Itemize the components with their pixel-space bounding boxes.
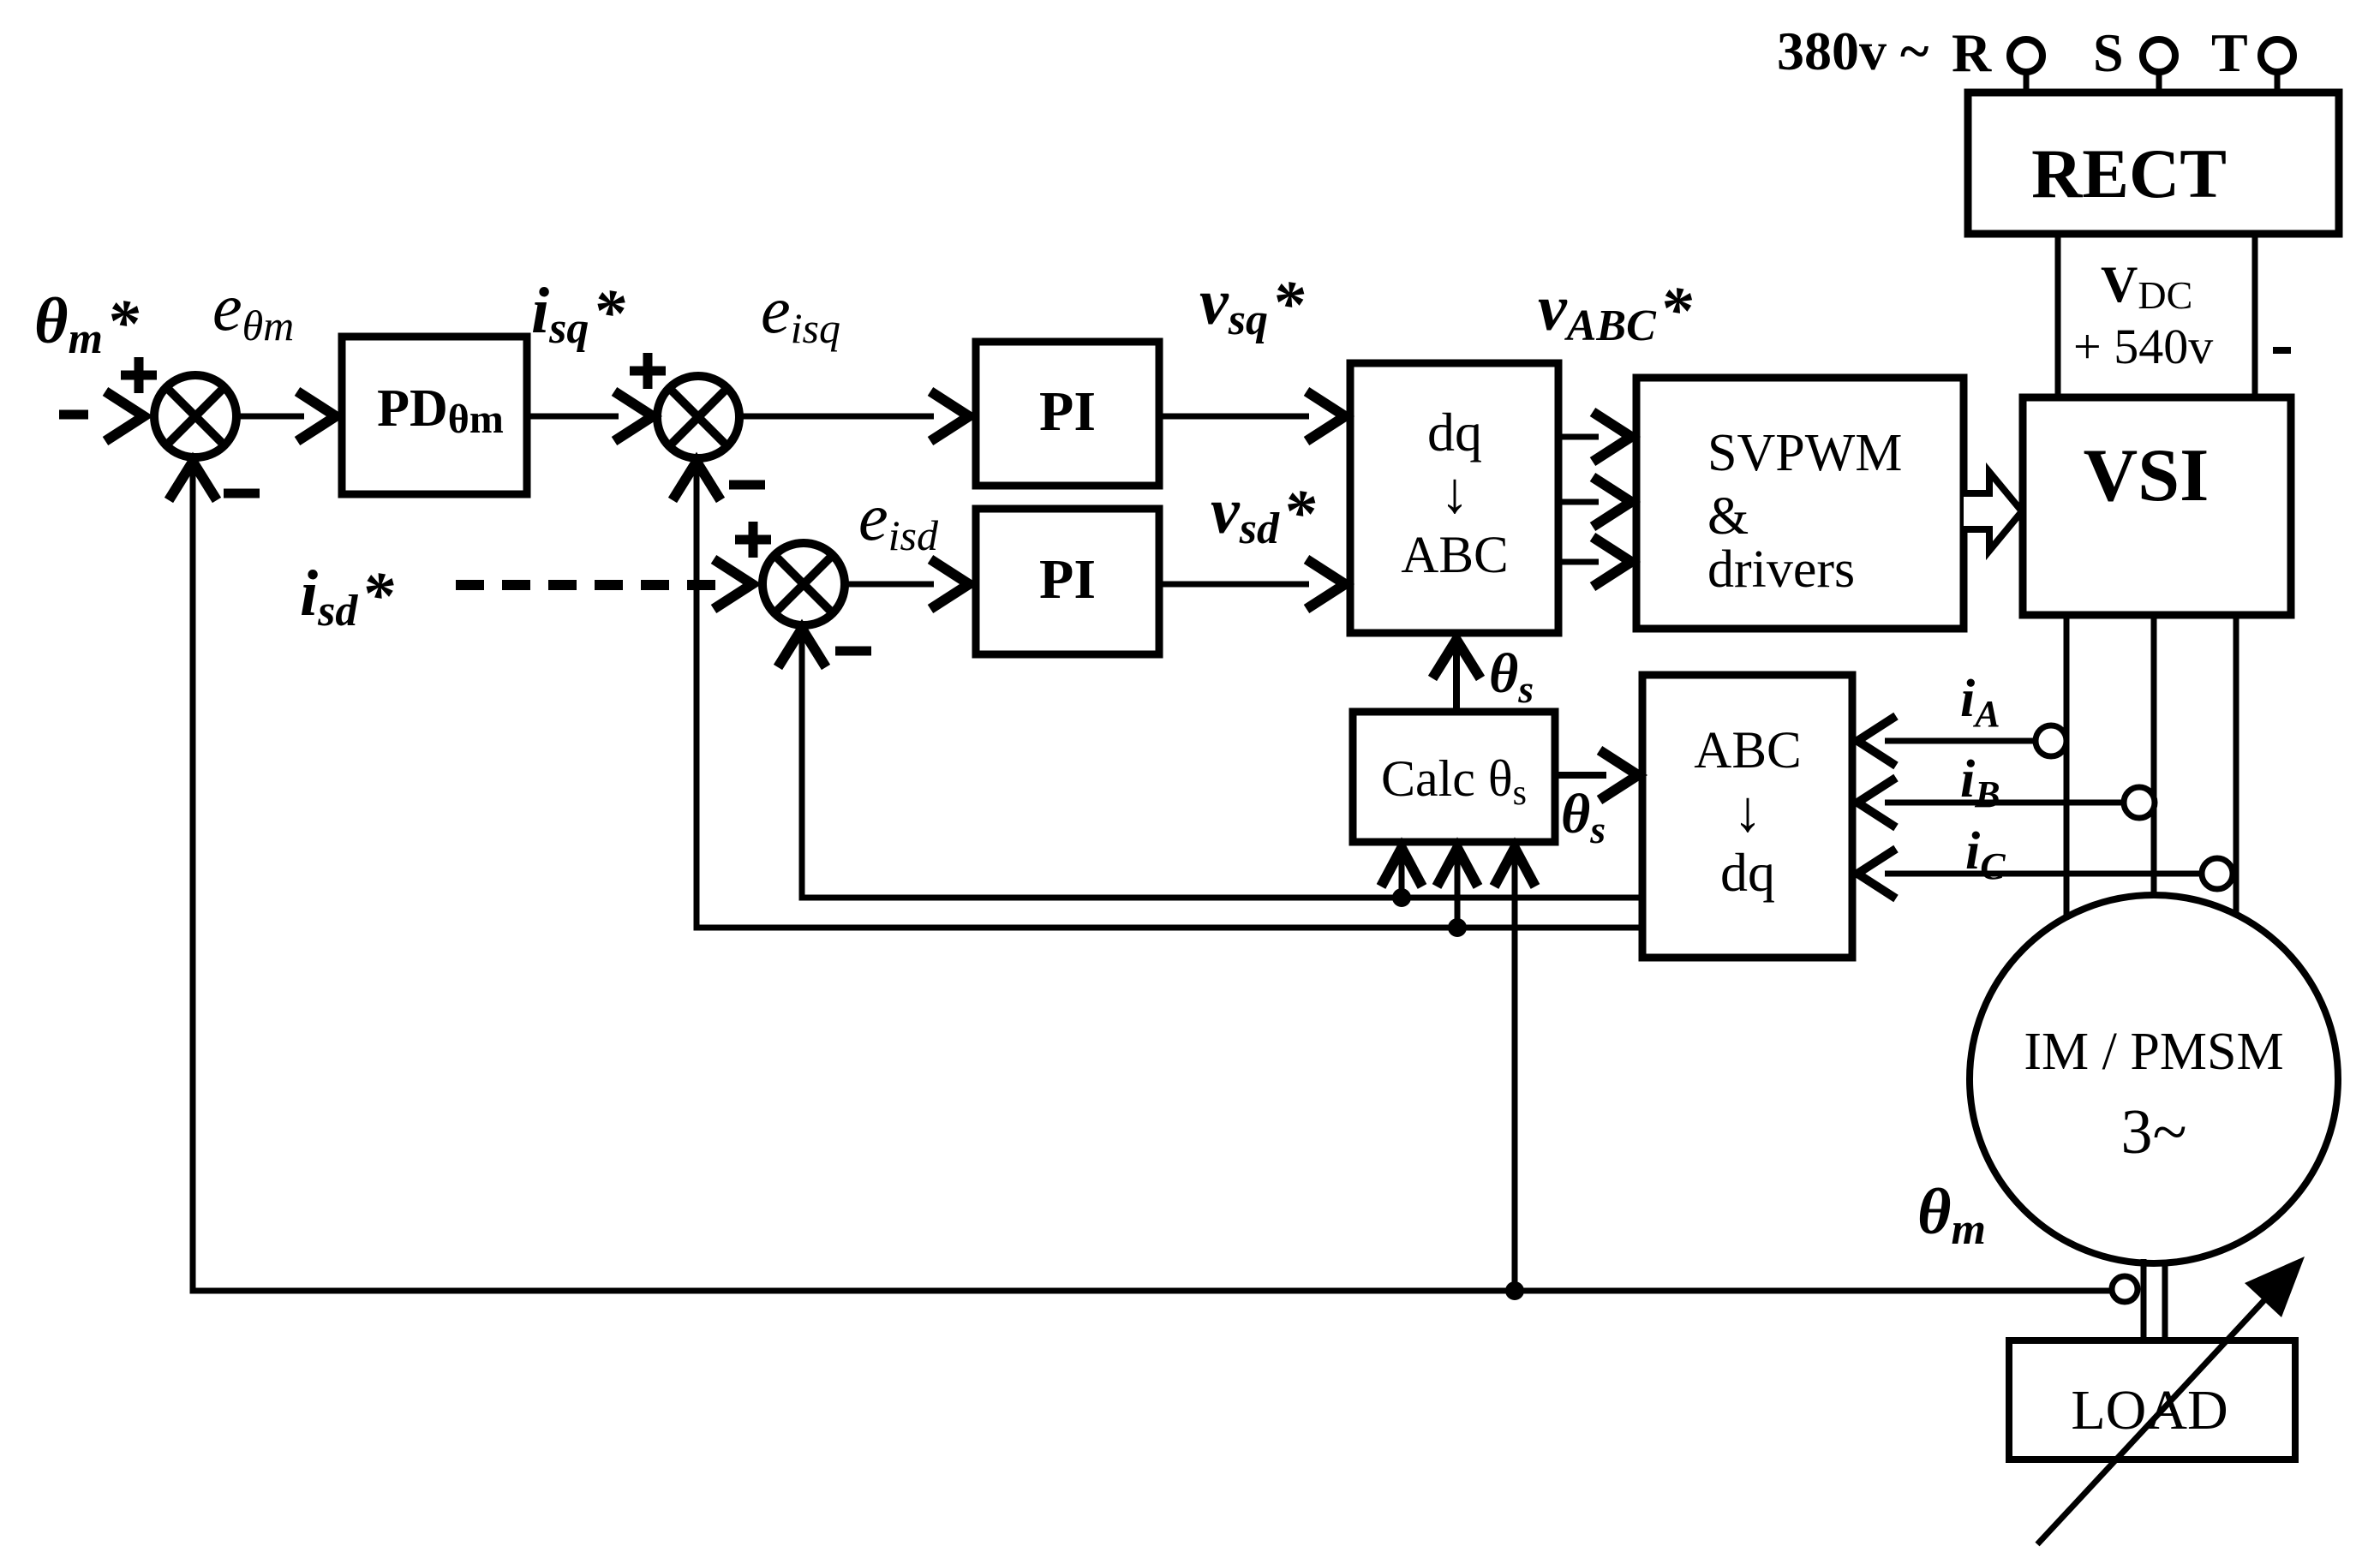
wire PD to S2 [527, 414, 619, 420]
stub S [2156, 72, 2162, 93]
plus sign at S3 [735, 522, 771, 558]
block PI upper [976, 342, 1159, 486]
arrowhead into PI2 [930, 559, 969, 609]
shaft position sensor circle [2112, 1276, 2138, 1302]
svg-text:LOAD: LOAD [2071, 1379, 2228, 1442]
svg-text:T: T [2211, 22, 2248, 83]
block LOAD [2009, 1340, 2295, 1459]
block dq to ABC converter [1350, 363, 1558, 633]
theta_m feedback wire [193, 469, 2112, 1291]
svg-text:SVPWM: SVPWM [1707, 424, 1902, 482]
junction dot on line B [1448, 918, 1467, 937]
shaft lines [2144, 1259, 2165, 1340]
current sensor circle A [2036, 725, 2066, 756]
motor circle IM/PMSM [1970, 895, 2338, 1263]
plus sign at S1 [121, 357, 157, 393]
svg-text:PI: PI [1039, 380, 1096, 443]
minus right-below S2 [729, 481, 765, 490]
arrowhead into S2 [614, 391, 653, 441]
block PI lower [976, 509, 1159, 654]
arrowhead vsd* into dq-ABC [1307, 559, 1345, 609]
arrowhead iB [1857, 778, 1896, 827]
svg-text:IM / PMSM: IM / PMSM [2024, 1023, 2283, 1081]
wire PI2 to dq-ABC [1159, 582, 1309, 588]
input dash (minus of theta_m*) [59, 410, 88, 420]
wire PI1 to dq-ABC [1159, 414, 1309, 420]
arrowhead into S1 bottom [169, 462, 217, 500]
wire theta_s up to dq-ABC [1453, 646, 1460, 712]
wire dq-ABC to SVPWM 2 [1558, 499, 1599, 505]
svg-text:R: R [1952, 22, 1992, 83]
DC bus wire minus [2252, 234, 2258, 397]
svg-text:3~: 3~ [2120, 1097, 2186, 1167]
dashed wire isd* [456, 580, 716, 590]
arrowhead theta_s up [1432, 640, 1480, 678]
wire S2 to PI1 [739, 414, 934, 420]
terminal circle R [2010, 39, 2042, 72]
arrowhead into S2 bottom [673, 462, 721, 500]
summing junction S1 (position error) [154, 375, 236, 457]
arrowhead iC [1857, 849, 1896, 898]
block Calc theta_s [1353, 712, 1555, 842]
Calc input stub 2 [1455, 853, 1461, 928]
svg-text:ABC: ABC [1694, 722, 1801, 779]
arrowhead iA [1857, 716, 1896, 766]
stub T [2275, 72, 2281, 93]
arrowhead into S1 [105, 391, 144, 441]
svg-text:↓: ↓ [1733, 779, 1762, 844]
wire S1 to PD [236, 414, 304, 420]
arrowhead into PD [297, 391, 336, 441]
svg-text:+ 540v: + 540v [2073, 319, 2213, 374]
terminal circle T [2261, 39, 2293, 72]
Calc input stub 1 [1399, 853, 1405, 898]
minus below S1 [224, 489, 260, 498]
block ABC to dq converter [1642, 675, 1852, 958]
junction dot on theta_m feedback [1505, 1281, 1524, 1300]
wire dq-ABC to SVPWM 1 [1558, 434, 1599, 440]
svg-text:VSI: VSI [2084, 434, 2210, 517]
DC bus wire plus [2055, 234, 2061, 397]
current sensor circle B [2124, 787, 2155, 818]
block VSI [2023, 397, 2291, 615]
arrowhead into S3 bottom [778, 629, 826, 667]
wire Calc to ABC-dq [1555, 772, 1606, 779]
stub R [2024, 72, 2030, 93]
summing junction S3 (isd error) [762, 543, 845, 625]
current sensor circle C [2202, 858, 2233, 889]
terminal circle S [2143, 39, 2175, 72]
block SVPWM & drivers [1636, 378, 1964, 629]
block arrow SVPWM to VSI [1964, 472, 2022, 551]
plus sign at S2 [630, 353, 666, 389]
wire iC [1885, 871, 2202, 877]
arrowhead into SVPWM 1 [1593, 412, 1631, 462]
wire iA [1885, 738, 2036, 744]
arrowhead theta_s into ABC-dq [1600, 750, 1638, 800]
svg-text:↓: ↓ [1440, 460, 1469, 525]
svg-text:dq: dq [1720, 842, 1775, 903]
phase line C [2233, 615, 2239, 915]
minus dash of DC bus [2273, 347, 2291, 354]
Calc input wire 3 (theta_m) [1512, 853, 1518, 1291]
feedback wire isq (line A) [802, 636, 1642, 898]
junction dot on line A [1392, 888, 1411, 907]
svg-text:380v ~: 380v ~ [1777, 21, 1929, 81]
phase line A [2064, 615, 2070, 917]
feedback wire isd (line B) [697, 469, 1642, 928]
svg-text:PI: PI [1039, 548, 1096, 611]
svg-text:drivers: drivers [1707, 540, 1855, 599]
arrowhead into SVPWM 3 [1593, 537, 1631, 587]
svg-text:S: S [2093, 22, 2124, 83]
svg-text:&: & [1707, 487, 1749, 546]
svg-text:dq: dq [1427, 402, 1482, 463]
wire dq-ABC to SVPWM 3 [1558, 559, 1599, 565]
block PD_thetam [342, 337, 527, 494]
variable load diagonal arrow [2037, 1289, 2275, 1544]
arrowhead into SVPWM 2 [1593, 477, 1631, 527]
arrowhead into S3 [714, 559, 752, 609]
wire S3 to PI2 [844, 582, 934, 588]
summing junction S2 (isq error) [657, 376, 739, 458]
svg-text:ABC: ABC [1401, 527, 1508, 584]
phase line B [2151, 615, 2157, 896]
arrowhead vsq* into dq-ABC [1307, 391, 1345, 441]
svg-text:Calc θs: Calc θs [1381, 750, 1527, 813]
minus right-below S3 [835, 647, 871, 656]
arrowhead into PI1 [930, 391, 969, 441]
wire iB [1885, 800, 2124, 806]
block RECT [1968, 93, 2339, 234]
svg-text:RECT: RECT [2031, 134, 2227, 212]
